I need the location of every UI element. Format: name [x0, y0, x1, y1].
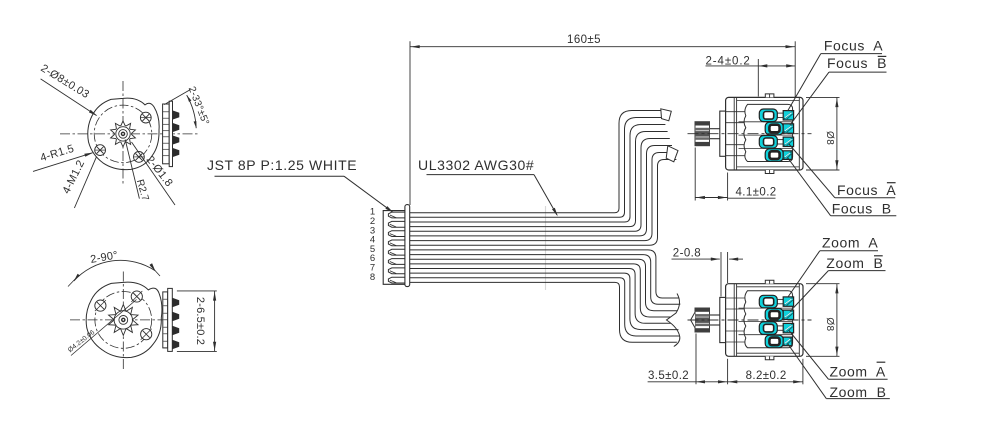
svg-text:2-0.8: 2-0.8	[673, 248, 701, 260]
svg-text:Focus B: Focus B	[832, 201, 892, 217]
svg-text:Focus B: Focus B	[827, 55, 887, 71]
svg-text:4.1±0.2: 4.1±0.2	[736, 186, 777, 198]
svg-text:Zoom A: Zoom A	[830, 364, 886, 380]
svg-text:Ø8: Ø8	[824, 317, 835, 331]
svg-text:160±5: 160±5	[567, 34, 601, 46]
svg-text:Zoom B: Zoom B	[826, 255, 883, 271]
svg-text:Zoom A: Zoom A	[822, 235, 878, 251]
svg-text:Focus A: Focus A	[837, 182, 896, 198]
svg-text:Focus A: Focus A	[824, 38, 883, 54]
svg-text:3.5±0.2: 3.5±0.2	[648, 370, 689, 382]
svg-text:2-6.5±0.2: 2-6.5±0.2	[194, 297, 206, 345]
svg-text:JST 8P P:1.25 WHITE: JST 8P P:1.25 WHITE	[207, 157, 357, 173]
svg-text:8.2±0.2: 8.2±0.2	[746, 370, 787, 382]
svg-text:Ø8: Ø8	[824, 131, 835, 145]
svg-text:Zoom B: Zoom B	[830, 384, 887, 400]
svg-text:UL3302 AWG30#: UL3302 AWG30#	[418, 157, 534, 173]
svg-text:8: 8	[370, 272, 375, 283]
